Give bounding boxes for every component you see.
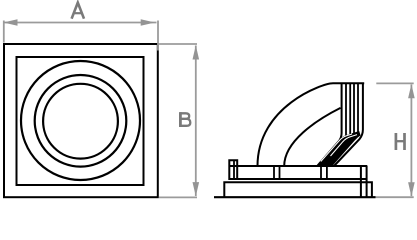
dim A extension line left bbox=[3, 21, 5, 43]
head stack line 5 bbox=[357, 84, 359, 135]
left post inner line bbox=[233, 161, 235, 180]
circle inner lamp bbox=[43, 84, 118, 159]
circle middle ring bbox=[35, 75, 127, 167]
side view: ground line bbox=[214, 196, 376, 198]
circle outer ring bbox=[21, 61, 140, 180]
dim A arrow left bbox=[3, 19, 17, 26]
dim A extension line right bbox=[157, 21, 159, 51]
dim H arrow top bbox=[408, 84, 415, 98]
dim B extension line bottom bbox=[159, 196, 197, 198]
arm inner arc bbox=[284, 108, 340, 166]
dim H extension bottom (ground continuation) bbox=[376, 196, 414, 198]
side view: left post bbox=[229, 160, 237, 180]
dim H arrow bottom bbox=[408, 182, 415, 196]
dim A arrow right bbox=[141, 19, 155, 26]
dim B arrow bottom bbox=[193, 182, 200, 196]
side view: bar top edge bbox=[229, 165, 367, 167]
arm outer arc bbox=[258, 83, 334, 166]
dim B line bbox=[195, 46, 197, 197]
bend band fill bbox=[316, 131, 360, 166]
bend band sliver 2 bbox=[321, 134, 352, 162]
side view: plinth bbox=[224, 182, 372, 197]
head stack line 3 bbox=[349, 84, 351, 136]
label A bbox=[72, 3, 84, 19]
dim B arrow top bbox=[193, 45, 200, 59]
head stack line 2 bbox=[345, 84, 347, 137]
side view: bar bottom edge bbox=[229, 178, 367, 180]
head right edge bbox=[334, 84, 363, 166]
front view: outer square trim bbox=[4, 44, 158, 197]
head stack line 1 bbox=[318, 84, 342, 166]
dim B extension line top bbox=[159, 43, 197, 45]
head top edge bbox=[333, 82, 364, 84]
dim H extension top bbox=[376, 82, 413, 84]
bar divider pair 1 bbox=[273, 167, 275, 179]
label B bbox=[180, 112, 191, 127]
label H bbox=[396, 133, 405, 150]
dim A line bbox=[5, 22, 157, 24]
bend band sliver bbox=[331, 135, 358, 156]
bar right end verticals bbox=[360, 166, 362, 197]
front view: inner square bezel bbox=[17, 57, 144, 185]
bar divider pair 2 bbox=[320, 167, 322, 179]
dim H line bbox=[410, 85, 412, 197]
head stack line 4 bbox=[353, 84, 355, 136]
